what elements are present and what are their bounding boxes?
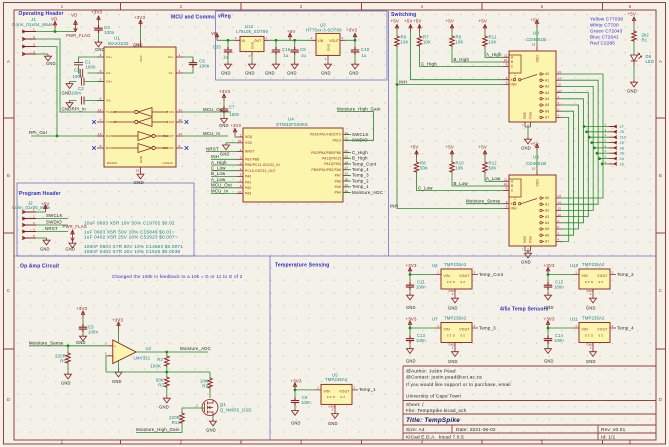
svg-text:1: 1 xyxy=(240,133,242,137)
svg-text:@Author: Justin Pead: @Author: Justin Pead xyxy=(406,369,456,374)
svg-text:15: 15 xyxy=(558,207,562,211)
svg-text:INH: INH xyxy=(211,154,219,159)
svg-text:GND: GND xyxy=(265,71,275,76)
svg-text:3: 3 xyxy=(612,324,614,328)
svg-text:VIN: VIN xyxy=(324,389,331,393)
svg-text:U10: U10 xyxy=(570,263,579,268)
ground C5 xyxy=(80,334,87,341)
svg-text:C8: C8 xyxy=(300,47,306,52)
svg-text:OUT: OUT xyxy=(254,39,261,43)
svg-text:50K: 50K xyxy=(489,166,497,171)
svg-text:A2: A2 xyxy=(545,85,549,89)
svg-text:VIN: VIN xyxy=(444,328,451,332)
svg-text:+3V3: +3V3 xyxy=(112,318,124,323)
svg-text:3: 3 xyxy=(342,36,344,40)
wire Q1 gate xyxy=(182,407,205,409)
svg-text:GND: GND xyxy=(321,71,331,76)
svg-text:U8: U8 xyxy=(533,31,539,36)
svg-text:Moisture_High_Gain: Moisture_High_Gain xyxy=(136,427,180,432)
connector J1 Conn_01x04_Male xyxy=(12,17,53,27)
svg-text:3: 3 xyxy=(179,69,181,73)
connector J4 xyxy=(600,158,609,160)
svg-text:4: 4 xyxy=(558,114,560,118)
svg-text:NRST: NRST xyxy=(245,150,254,154)
svg-text:C_Low: C_Low xyxy=(418,185,433,190)
op-amp U2 LMV321 xyxy=(113,340,136,364)
inverter T at y=122 xyxy=(113,121,168,123)
svg-text:VS-: VS- xyxy=(106,99,112,103)
svg-text:100n: 100n xyxy=(88,330,99,335)
svg-text:2.5: 2.5 xyxy=(598,333,603,337)
svg-text:GND: GND xyxy=(327,43,331,51)
svg-text:GND: GND xyxy=(251,41,255,49)
svg-text:Temp_1: Temp_1 xyxy=(359,387,376,392)
svg-text:INH: INH xyxy=(390,203,398,208)
svg-text:G 2.5: G 2.5 xyxy=(447,333,455,337)
svg-text:D: D xyxy=(659,397,663,402)
ground U1 xyxy=(137,172,144,179)
svg-text:GND: GND xyxy=(139,155,143,163)
svg-text:1: 1 xyxy=(605,133,607,137)
multiplexer U8 CD4051B xyxy=(526,31,546,43)
svg-text:10K: 10K xyxy=(401,40,409,45)
svg-text:Op Amp Circuit: Op Amp Circuit xyxy=(20,264,59,270)
capacitor C11 xyxy=(409,275,411,283)
svg-text:A5: A5 xyxy=(545,227,549,231)
svg-text:3: 3 xyxy=(196,404,198,408)
svg-text:14: 14 xyxy=(558,76,562,80)
svg-text:15: 15 xyxy=(558,83,562,87)
capacitor C14 xyxy=(547,328,549,336)
svg-text:R4: R4 xyxy=(202,384,208,389)
svg-text:A1: A1 xyxy=(545,78,549,82)
svg-text:4: 4 xyxy=(240,148,242,152)
svg-text:2: 2 xyxy=(180,4,183,9)
svg-text:U4: U4 xyxy=(288,117,294,122)
svg-text:STM32F030K6: STM32F030K6 xyxy=(276,122,308,127)
svg-text:2: 2 xyxy=(332,407,334,411)
svg-text:GND: GND xyxy=(95,47,105,52)
svg-text:GND: GND xyxy=(544,305,554,310)
svg-text:GND: GND xyxy=(521,146,531,151)
svg-text:Moisture_Sense: Moisture_Sense xyxy=(29,340,64,345)
svg-text:1: 1 xyxy=(605,155,607,159)
svg-text:IN: IN xyxy=(242,39,246,43)
connector J10 xyxy=(589,136,609,138)
svg-text:1uF 0402 X5R 25V 10% C52923 $0: 1uF 0402 X5R 25V 10% C52923 $0.007~ xyxy=(84,235,178,240)
svg-text:Rev: v0.01: Rev: v0.01 xyxy=(601,427,626,432)
svg-text:5: 5 xyxy=(558,101,560,105)
capacitor C10 xyxy=(354,39,357,42)
svg-text:10: 10 xyxy=(504,182,508,186)
svg-text:1u: 1u xyxy=(301,53,307,58)
svg-text:+3V3: +3V3 xyxy=(219,89,231,94)
ground C7 xyxy=(221,116,228,123)
svg-text:R1IN: R1IN xyxy=(106,134,114,138)
ground C12 xyxy=(545,293,552,300)
svg-text:+3V3: +3V3 xyxy=(134,15,146,20)
svg-text:+5V: +5V xyxy=(287,29,296,34)
resistor R1 2k2 xyxy=(632,30,637,42)
svg-text:C2: C2 xyxy=(74,68,80,73)
svg-text:2: 2 xyxy=(240,156,242,160)
svg-text:+3V3: +3V3 xyxy=(291,378,303,383)
svg-text:B: B xyxy=(511,184,513,188)
svg-text:TMP235A2: TMP235A2 xyxy=(582,316,605,321)
ground op-amp xyxy=(118,361,120,370)
wire B_Low xyxy=(452,173,503,186)
svg-text:PA3: PA3 xyxy=(245,192,251,196)
svg-text:1: 1 xyxy=(437,324,439,328)
svg-text:10K: 10K xyxy=(456,40,464,45)
wire T1IN MCU_Out xyxy=(183,111,231,113)
svg-text:Moisture_ADC: Moisture_ADC xyxy=(180,346,211,351)
svg-text:Title: TempSpike: Title: TempSpike xyxy=(406,417,460,424)
svg-text:1: 1 xyxy=(558,219,560,223)
svg-text:VEE: VEE xyxy=(523,112,527,119)
resistor R4 10K xyxy=(209,372,211,377)
svg-text:2: 2 xyxy=(311,36,313,40)
net label A_Low left xyxy=(211,181,237,183)
svg-text:R5: R5 xyxy=(60,359,66,364)
svg-text:9: 9 xyxy=(506,187,508,191)
svg-text:U6: U6 xyxy=(432,263,438,268)
wire A_Low xyxy=(485,173,503,181)
svg-text:B_High: B_High xyxy=(454,57,470,62)
wire bundle mux outputs xyxy=(561,74,603,241)
capacitor C1 xyxy=(74,63,83,65)
svg-text:C_Low: C_Low xyxy=(211,166,226,171)
resistor R2 100K feedback xyxy=(166,352,168,355)
svg-text:GND: GND xyxy=(40,247,50,252)
svg-text:LED: LED xyxy=(646,59,655,64)
ground C10 xyxy=(352,62,359,69)
resistor R3 50K xyxy=(165,376,170,388)
svg-text:14: 14 xyxy=(98,108,102,112)
capacitor C2 (series) xyxy=(80,69,83,77)
svg-text:3: 3 xyxy=(105,351,107,355)
svg-text:Moisture_ADC: Moisture_ADC xyxy=(352,190,383,195)
svg-text:11: 11 xyxy=(504,54,508,58)
svg-text:PA12[PA10]: PA12[PA10] xyxy=(322,157,341,161)
svg-text:Conn_01x04_Male: Conn_01x04_Male xyxy=(12,22,53,27)
svg-text:GND: GND xyxy=(134,180,144,185)
svg-text:1: 1 xyxy=(605,139,607,143)
net label Moisture_High_Gain xyxy=(136,432,182,434)
regulator U12 L78L05_SOT89 xyxy=(236,24,268,34)
no-connect R2IN xyxy=(92,146,96,150)
svg-text:8: 8 xyxy=(240,184,242,188)
svg-text:7: 7 xyxy=(522,248,524,252)
net label A_High left xyxy=(211,164,237,166)
svg-text:GND: GND xyxy=(328,421,338,426)
svg-text:GND: GND xyxy=(62,91,72,96)
svg-text:12: 12 xyxy=(558,213,562,217)
ground C35 xyxy=(227,55,229,62)
svg-text:1: 1 xyxy=(325,57,327,61)
svg-text:+5V: +5V xyxy=(413,19,422,24)
wire J1 pin3 to R1IN xyxy=(31,47,104,137)
connector J5 xyxy=(587,131,609,133)
section box Program Header xyxy=(17,183,194,256)
svg-text:+5V: +5V xyxy=(446,145,455,150)
svg-text:J10: J10 xyxy=(620,135,628,140)
power +3V3 on U4 VDD xyxy=(235,136,237,138)
svg-text:Program Header: Program Header xyxy=(19,191,61,197)
wire R6 INH bus xyxy=(397,47,503,209)
svg-text:PA11[PA9]: PA11[PA9] xyxy=(324,162,341,166)
svg-text:VSS: VSS xyxy=(529,236,533,243)
svg-text:B_Low: B_Low xyxy=(211,171,226,176)
svg-text:VIN: VIN xyxy=(582,274,589,278)
svg-text:14: 14 xyxy=(558,200,562,204)
svg-text:PA0: PA0 xyxy=(245,175,251,179)
svg-text:A2: A2 xyxy=(545,209,549,213)
svg-text:100nF 0402 X7R 16V 10% C1525 $: 100nF 0402 X7R 16V 10% C1525 $0.0038 xyxy=(84,249,181,254)
svg-text:C1-: C1- xyxy=(169,71,174,75)
connector J8 xyxy=(594,147,609,149)
svg-text:C16: C16 xyxy=(282,47,291,52)
svg-text:TMP235A2: TMP235A2 xyxy=(444,316,467,321)
svg-text:+3V3: +3V3 xyxy=(544,263,556,268)
regulator U3 HT75xx-3-SOT89 xyxy=(306,23,342,33)
ground VS- cap xyxy=(66,101,73,108)
wire C1+/C1- to C6 xyxy=(183,57,193,73)
no-connect R2OUT xyxy=(185,146,189,150)
svg-text:GND: GND xyxy=(221,71,231,76)
svg-text:RPi_Out: RPi_Out xyxy=(29,130,48,135)
ground U5 xyxy=(332,411,339,418)
svg-text:VDD: VDD xyxy=(245,135,253,139)
svg-text:A6: A6 xyxy=(545,233,549,237)
ground PWR_FLAG xyxy=(69,241,76,248)
svg-text:L78L05_SOT89: L78L05_SOT89 xyxy=(236,29,268,34)
svg-text:6: 6 xyxy=(240,173,242,177)
svg-text:J9: J9 xyxy=(620,140,625,145)
svg-text:A4: A4 xyxy=(545,97,549,101)
svg-text:13: 13 xyxy=(558,70,562,74)
svg-text:A0: A0 xyxy=(545,196,549,200)
net label INH left xyxy=(211,158,237,160)
svg-text:If you would like support or t: If you would like support or to purchase… xyxy=(406,382,511,387)
svg-text:100n: 100n xyxy=(230,112,240,117)
svg-text:A6: A6 xyxy=(545,109,549,113)
svg-text:2.5: 2.5 xyxy=(460,280,465,284)
svg-text:1: 1 xyxy=(266,36,268,40)
svg-text:2: 2 xyxy=(590,346,592,350)
wire C_High xyxy=(420,47,504,67)
no-connect T2IN xyxy=(185,120,189,124)
svg-text:PA15/PA14-BOOT0: PA15/PA14-BOOT0 xyxy=(310,133,341,137)
capacitor C12 xyxy=(547,275,549,283)
svg-text:G 2.5: G 2.5 xyxy=(585,333,593,337)
svg-text:3: 3 xyxy=(474,324,476,328)
svg-text:100K: 100K xyxy=(150,364,161,369)
svg-text:9: 9 xyxy=(179,144,181,148)
svg-text:3: 3 xyxy=(506,200,508,204)
wire U3 VOUT rail +3V3 xyxy=(345,39,355,41)
svg-text:B: B xyxy=(659,173,662,178)
svg-text:1: 1 xyxy=(605,128,607,132)
svg-text:C1+: C1+ xyxy=(168,55,174,59)
net label SWCLK xyxy=(36,218,68,220)
svg-text:White C7700: White C7700 xyxy=(590,23,619,28)
ground Q1 source xyxy=(212,416,214,420)
ground LED xyxy=(631,80,638,87)
svg-text:100n: 100n xyxy=(301,400,311,405)
temp sensor U5 TMP235A2 xyxy=(325,372,348,382)
svg-text:Temp_1: Temp_1 xyxy=(352,184,369,189)
inverter R at y=136 xyxy=(113,135,168,137)
svg-text:+5V: +5V xyxy=(628,12,637,17)
svg-text:PA5: PA5 xyxy=(335,185,341,189)
svg-text:2.5: 2.5 xyxy=(340,395,345,399)
svg-text:1u: 1u xyxy=(362,53,368,58)
svg-text:Size: A4: Size: A4 xyxy=(406,427,425,432)
net label Temp_1 right xyxy=(343,186,351,188)
svg-text:5: 5 xyxy=(541,440,544,445)
wire A_High xyxy=(485,47,503,57)
svg-text:D: D xyxy=(7,397,11,402)
net label Temp_4 right xyxy=(343,169,351,171)
section divider Switching xyxy=(388,11,390,256)
ground U12 xyxy=(251,56,253,62)
net label MCU_In left xyxy=(211,193,237,195)
svg-text:3: 3 xyxy=(300,440,303,445)
svg-text:Red C2286: Red C2286 xyxy=(590,41,615,46)
svg-text:Sheet: /: Sheet: / xyxy=(406,402,424,407)
svg-text:VOUT: VOUT xyxy=(339,389,349,393)
svg-text:R3: R3 xyxy=(158,383,164,388)
svg-text:12: 12 xyxy=(179,132,183,136)
svg-text:+3V3: +3V3 xyxy=(406,263,418,268)
svg-text:U11: U11 xyxy=(570,317,578,322)
svg-text:11: 11 xyxy=(504,178,508,182)
svg-text:+5V: +5V xyxy=(404,19,413,24)
svg-text:CD4051B: CD4051B xyxy=(526,37,546,42)
svg-text:2.5: 2.5 xyxy=(598,280,603,284)
ground U7 xyxy=(452,350,459,357)
svg-text:U2: U2 xyxy=(146,346,152,351)
svg-text:Temp_2: Temp_2 xyxy=(617,272,634,277)
ground U11 xyxy=(590,350,597,357)
svg-text:GND: GND xyxy=(219,123,229,128)
svg-text:A7: A7 xyxy=(545,240,549,244)
svg-text:1: 1 xyxy=(575,270,577,274)
svg-text:B: B xyxy=(7,173,10,178)
svg-text:PC15-OSC32_OUT: PC15-OSC32_OUT xyxy=(245,169,276,173)
svg-text:3: 3 xyxy=(612,270,614,274)
svg-text:University of Cape Town: University of Cape Town xyxy=(406,394,461,399)
svg-text:13: 13 xyxy=(98,132,102,136)
note BOM capacitor pricing xyxy=(84,221,183,254)
wire feedback node xyxy=(106,356,210,372)
net label B_High right xyxy=(343,157,351,159)
net label Moisture_Sense wire to op-amp xyxy=(29,345,108,347)
svg-text:2: 2 xyxy=(180,440,183,445)
net label MCU_Out left xyxy=(211,187,237,189)
svg-text:3: 3 xyxy=(240,167,242,171)
svg-text:B_Low: B_Low xyxy=(454,181,469,186)
svg-text:R13: R13 xyxy=(172,420,181,425)
svg-text:File: TempSpike.kicad_sch: File: TempSpike.kicad_sch xyxy=(406,408,467,413)
svg-text:MCU_Out: MCU_Out xyxy=(211,183,232,188)
svg-text:100n: 100n xyxy=(554,285,564,290)
svg-text:GND: GND xyxy=(62,107,72,112)
ground C13 xyxy=(407,347,414,354)
svg-text:VIN: VIN xyxy=(444,274,451,278)
svg-text:GND: GND xyxy=(586,306,596,311)
svg-text:C10: C10 xyxy=(361,47,370,52)
svg-text:Yellow C77038: Yellow C77038 xyxy=(590,17,623,22)
svg-text:GND: GND xyxy=(287,71,297,76)
svg-text:+3V3: +3V3 xyxy=(91,10,103,15)
svg-text:U7: U7 xyxy=(432,317,438,322)
svg-text:15: 15 xyxy=(136,169,140,173)
ground U3 xyxy=(327,60,329,62)
svg-text:vReg: vReg xyxy=(218,14,231,20)
svg-text:16: 16 xyxy=(136,43,140,47)
temp sensor U10 TMP235A2 xyxy=(570,262,605,268)
svg-text:J8: J8 xyxy=(620,145,625,150)
svg-text:2: 2 xyxy=(452,292,454,296)
connector J7 xyxy=(584,126,609,128)
svg-text:2: 2 xyxy=(452,346,454,350)
svg-text:A5: A5 xyxy=(545,103,549,107)
LED D5 xyxy=(631,54,642,67)
svg-text:G 2.5: G 2.5 xyxy=(447,280,455,284)
svg-text:C2+: C2+ xyxy=(106,55,112,59)
svg-text:3: 3 xyxy=(33,43,35,47)
svg-text:C2-: C2- xyxy=(106,71,111,75)
ground C3 xyxy=(66,82,73,89)
svg-text:GND: GND xyxy=(46,61,56,66)
svg-text:NRST: NRST xyxy=(206,146,219,151)
title block xyxy=(403,366,656,440)
svg-text:TMP235A2: TMP235A2 xyxy=(444,262,467,267)
svg-text:16: 16 xyxy=(532,167,536,171)
svg-text:6: 6 xyxy=(629,4,632,9)
temp sensor U7 TMP235A2 xyxy=(432,316,467,322)
svg-text:4: 4 xyxy=(558,238,560,242)
net label Moisture_Sense wire to U9 X xyxy=(466,203,503,205)
svg-text:10: 10 xyxy=(179,118,183,122)
resistor R5 220R xyxy=(67,346,69,352)
net label SWDIO right xyxy=(343,139,351,141)
svg-text:Temp_Cont: Temp_Cont xyxy=(479,272,504,277)
svg-text:A_High: A_High xyxy=(211,160,227,165)
net label Temp_3 right xyxy=(343,174,351,176)
svg-text:6: 6 xyxy=(506,81,508,85)
connector J6 xyxy=(597,152,609,154)
wire B_High xyxy=(452,47,503,62)
svg-text:10K: 10K xyxy=(489,40,497,45)
svg-text:Switching: Switching xyxy=(391,12,416,18)
svg-text:VDD: VDD xyxy=(536,179,540,187)
svg-text:+3V3: +3V3 xyxy=(76,306,88,311)
svg-text:2: 2 xyxy=(558,107,560,111)
svg-text:50K: 50K xyxy=(420,166,428,171)
svg-text:3: 3 xyxy=(474,270,476,274)
svg-text:4: 4 xyxy=(33,50,35,54)
svg-text:A_Low: A_Low xyxy=(486,176,501,181)
svg-text:G 2.5: G 2.5 xyxy=(327,395,335,399)
svg-text:Temp_3: Temp_3 xyxy=(479,325,496,330)
wire J1 pin1 to VD xyxy=(36,29,76,32)
svg-text:VOUT: VOUT xyxy=(459,328,469,332)
svg-text:7: 7 xyxy=(240,178,242,182)
svg-text:5: 5 xyxy=(558,225,560,229)
